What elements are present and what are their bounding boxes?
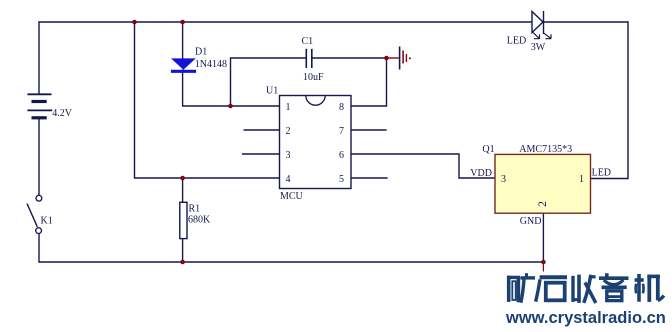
wire MCU pin7 stub xyxy=(351,129,387,131)
capacitor C1 xyxy=(306,49,312,68)
svg-text:1N4148: 1N4148 xyxy=(195,59,227,70)
node junction diode-C1 xyxy=(228,104,233,109)
wire ground node down to MCU pin8 xyxy=(351,58,387,106)
node junction ground xyxy=(384,56,389,61)
svg-text:2: 2 xyxy=(286,126,291,137)
ground xyxy=(387,47,411,70)
svg-text:D1: D1 xyxy=(195,47,207,58)
node junction top x182 xyxy=(180,20,185,25)
op-amp U1 MCU body xyxy=(280,96,352,189)
wire switch to bottom rail xyxy=(38,234,40,263)
wire R1 top xyxy=(182,178,184,203)
svg-text:10uF: 10uF xyxy=(303,72,324,83)
svg-text:3: 3 xyxy=(501,174,506,185)
svg-text:4.2V: 4.2V xyxy=(52,108,73,119)
wire battery top xyxy=(38,21,40,94)
wire MCU pin5 stub xyxy=(351,177,388,179)
svg-text:3W: 3W xyxy=(531,42,546,53)
watermark logo yin (sound) xyxy=(599,273,629,300)
wire Q1 GND pin down xyxy=(542,213,544,262)
svg-text:GND: GND xyxy=(520,216,542,227)
svg-text:VDD: VDD xyxy=(470,168,492,179)
watermark logo ji (machine) xyxy=(635,274,664,302)
wire top rail right segment xyxy=(544,21,629,23)
watermark logo shi (stone) xyxy=(536,277,567,301)
svg-text:3: 3 xyxy=(286,150,291,161)
wire top rail left segment xyxy=(39,21,532,23)
node junction R1 top xyxy=(180,176,185,181)
svg-text:MCU: MCU xyxy=(280,191,304,202)
svg-text:7: 7 xyxy=(339,126,344,137)
wire C1 right to ground node xyxy=(312,57,387,59)
diode D1 xyxy=(171,58,196,71)
battery BT 4.2V xyxy=(27,94,52,118)
svg-text:8: 8 xyxy=(339,102,344,113)
wire MCU pin2 stub xyxy=(244,129,280,131)
svg-text:www.crystalradio.cn: www.crystalradio.cn xyxy=(505,309,666,327)
wire battery minus to switch xyxy=(38,118,40,196)
svg-text:680K: 680K xyxy=(188,214,211,225)
svg-text:Q1: Q1 xyxy=(482,144,494,155)
LED D2 symbol xyxy=(532,11,551,39)
svg-text:K1: K1 xyxy=(41,215,53,226)
watermark logo kuang (ore) xyxy=(507,273,535,303)
node junction R1 bottom xyxy=(180,260,185,265)
wire right rail down to Q1 LED pin xyxy=(591,21,629,178)
resistor R1 xyxy=(180,202,187,238)
wire MCU pin6 to Q1 VDD xyxy=(351,154,495,178)
svg-text:1: 1 xyxy=(286,102,291,113)
svg-text:U1: U1 xyxy=(266,86,278,97)
node junction top x134 xyxy=(132,20,137,25)
svg-text:1: 1 xyxy=(579,174,584,185)
transistor Q1 AMC7135 body xyxy=(495,154,591,213)
wire MCU pin3 stub xyxy=(242,153,280,155)
switch K1 xyxy=(27,195,42,233)
wire vertical at x=134.5 to MCU pin4 row xyxy=(135,22,280,178)
svg-text:6: 6 xyxy=(339,150,344,161)
svg-text:2: 2 xyxy=(537,201,549,207)
wire node to C1 left xyxy=(231,58,307,106)
wire diode anode drop xyxy=(182,22,184,59)
wire bottom rail xyxy=(38,261,543,263)
svg-text:4: 4 xyxy=(286,174,291,185)
svg-text:AMC7135*3: AMC7135*3 xyxy=(519,144,572,155)
node junction GND rail xyxy=(541,260,546,265)
svg-text:LED: LED xyxy=(592,167,611,178)
svg-text:R1: R1 xyxy=(189,203,201,214)
wire diode cathode to MCU pin1 xyxy=(183,70,280,107)
svg-text:C1: C1 xyxy=(302,36,314,47)
watermark logo shou (receive) xyxy=(573,275,596,303)
svg-text:5: 5 xyxy=(339,174,344,185)
wire R1 bottom xyxy=(182,239,184,263)
wire GND stub below rail xyxy=(542,262,544,272)
svg-text:LED: LED xyxy=(507,35,526,46)
